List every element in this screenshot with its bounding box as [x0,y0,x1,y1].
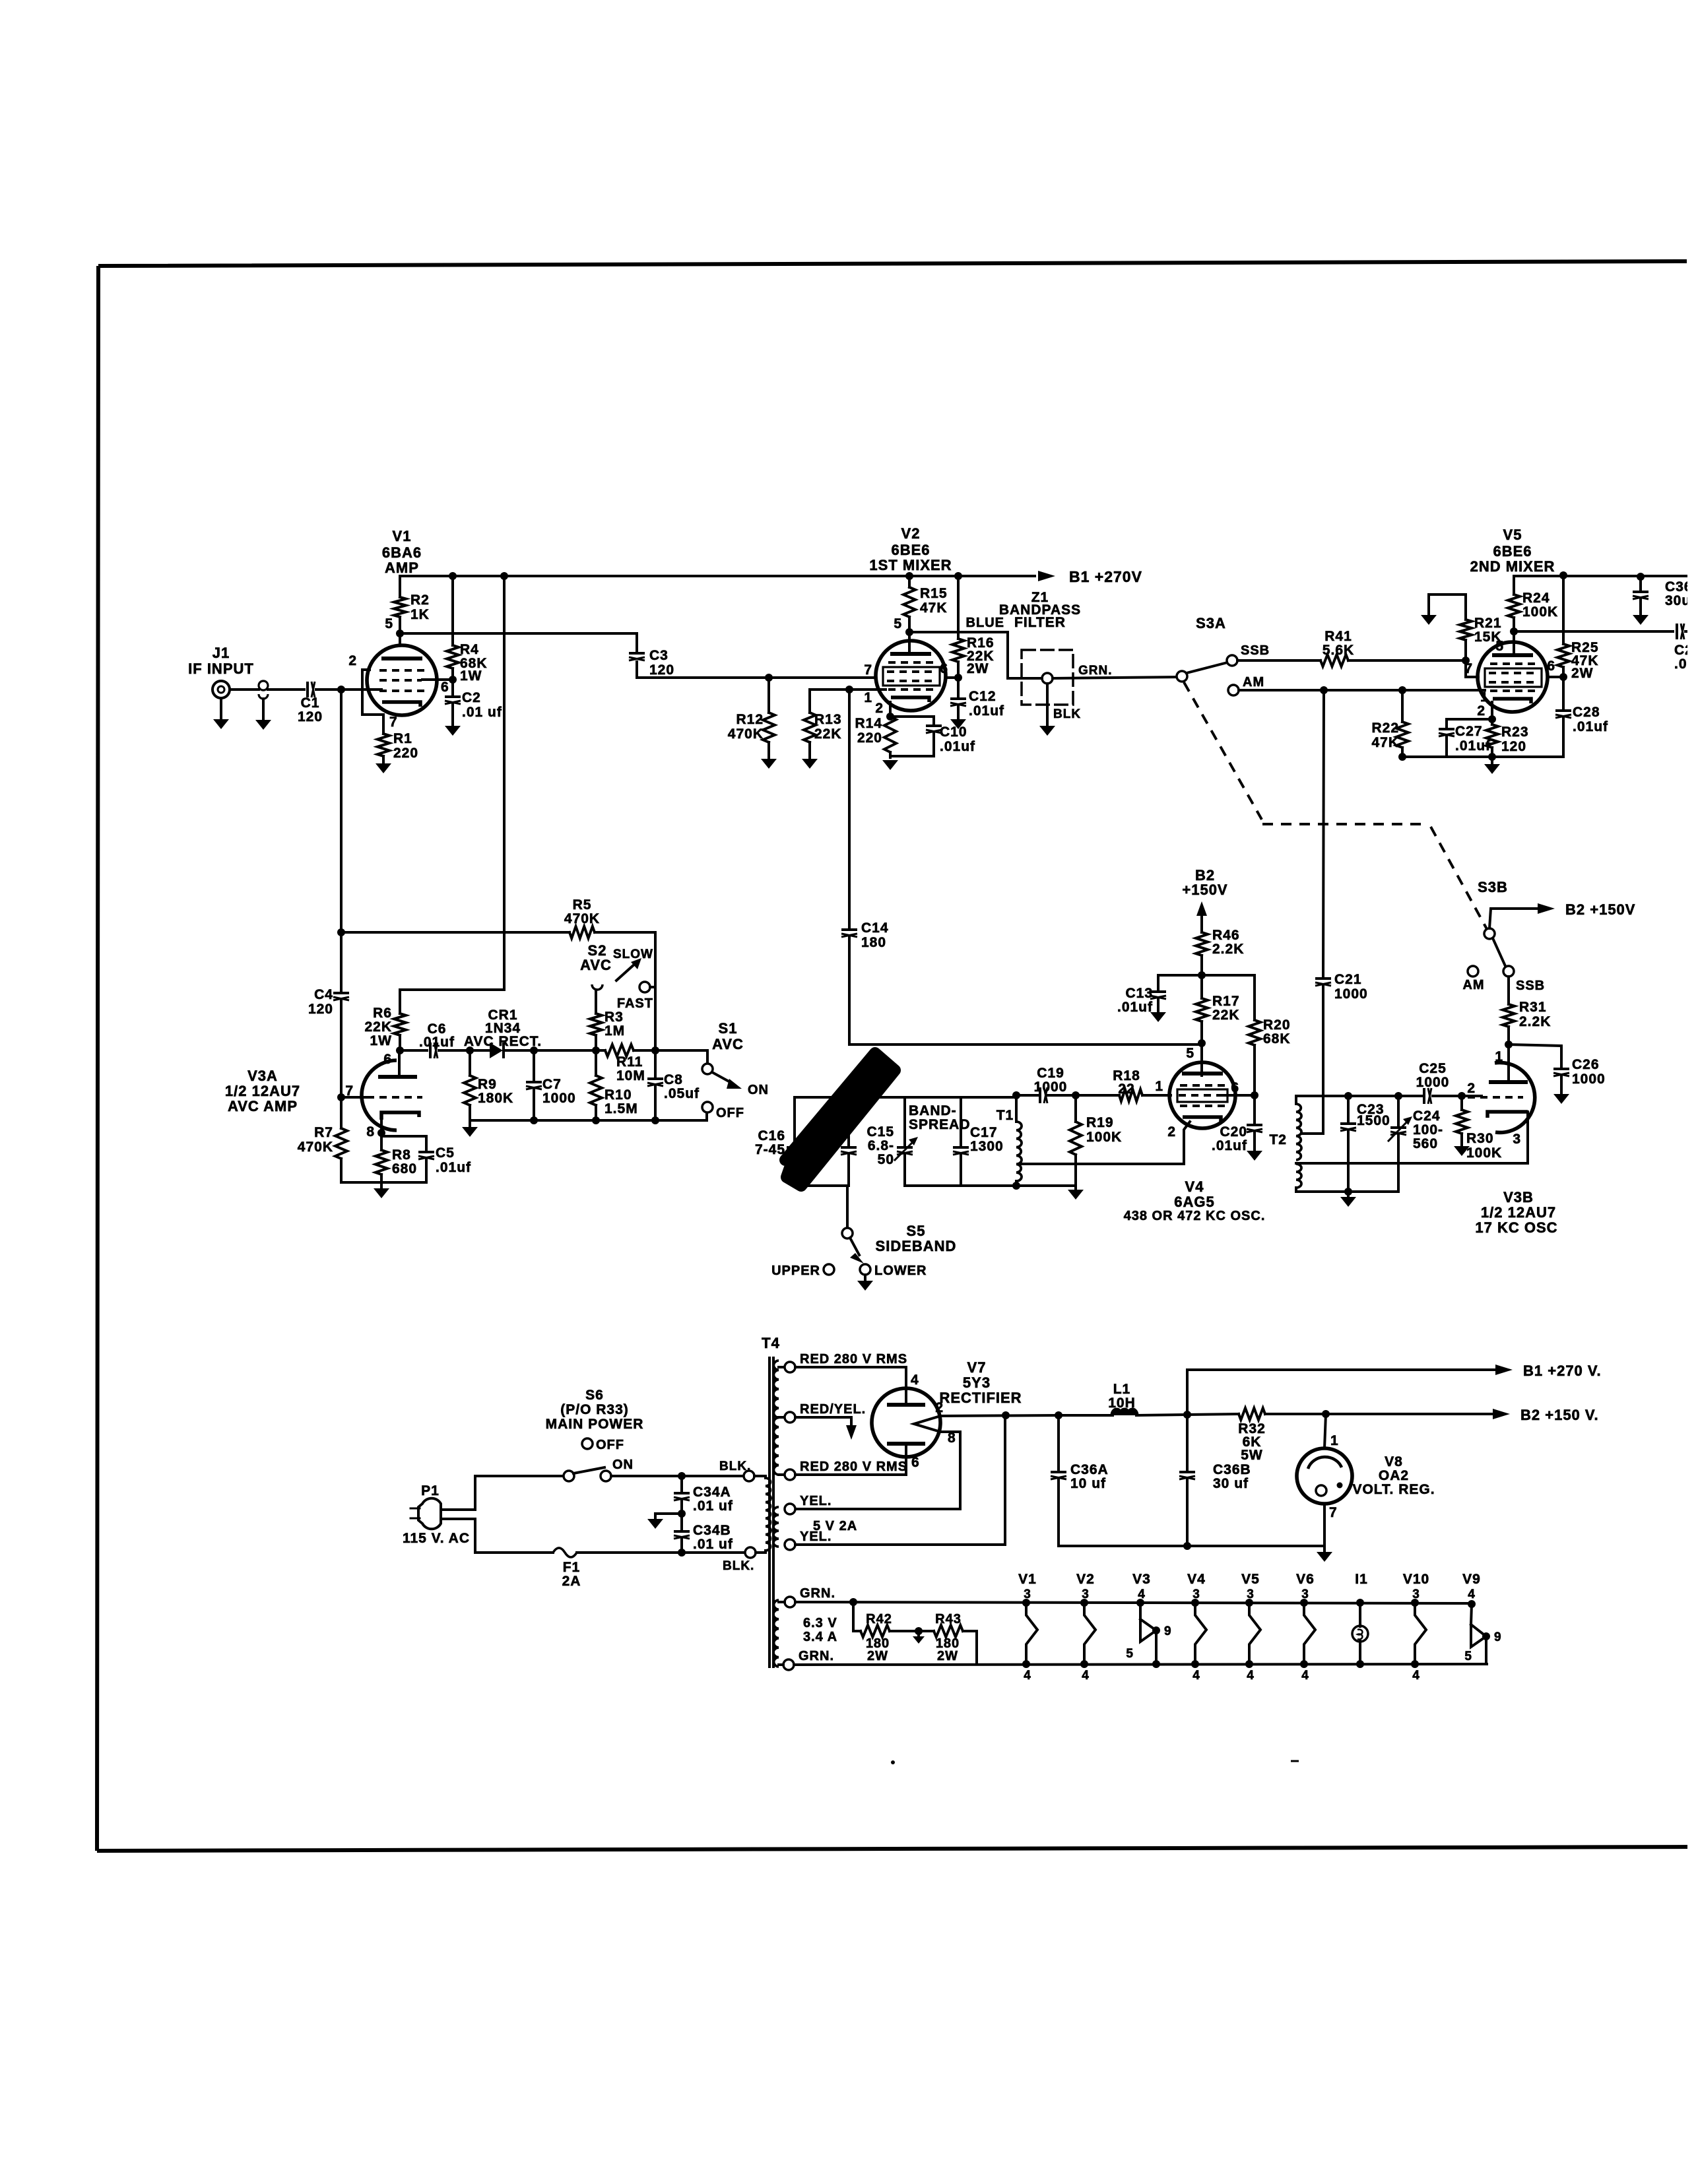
tube V5 6BE6 2ND MIXER [1478,642,1548,712]
svg-text:4: 4 [1247,1669,1255,1683]
wire to C26 [1509,1044,1561,1066]
wire R19 node to R18 [1076,1094,1119,1097]
svg-text:R2: R2 [410,593,430,608]
svg-text:V5: V5 [1503,527,1522,543]
svg-text:17 KC OSC: 17 KC OSC [1475,1219,1557,1236]
svg-text:AMP: AMP [385,560,419,576]
ground below R12 [761,759,777,769]
S2 FAST contact [639,982,650,992]
svg-text:3.4 A: 3.4 A [803,1630,837,1644]
pin 8 of V3A [380,1120,383,1133]
svg-text:4: 4 [1468,1588,1476,1601]
resistor R31 2.2K [1507,977,1510,1004]
svg-text:V1: V1 [1018,1572,1037,1587]
node AVC bus / C7 [530,1046,538,1054]
ground at connector [262,699,265,719]
ground below R23 [1491,757,1493,763]
capacitor C23 1500 [1347,1096,1350,1121]
capacitor C3 120 [629,652,645,655]
capacitor C14 180 [841,928,857,931]
svg-text:(P/O R33): (P/O R33) [560,1402,629,1417]
svg-text:R7: R7 [314,1125,333,1140]
node grid wire / R30 [1458,1092,1466,1100]
svg-text:R14: R14 [855,716,882,731]
capacitor C27 .01uf [1445,737,1448,757]
node pin6 V5 / R25 / C28 [1559,673,1567,681]
heater of V4 [1191,1599,1199,1607]
svg-text:115 V. AC: 115 V. AC [403,1531,470,1546]
svg-text:2W: 2W [1571,666,1594,681]
inductor T1 [1015,1095,1018,1122]
terminal GRN top [785,1597,795,1607]
wire connector to C1 [268,688,304,691]
node C23 top [1344,1092,1352,1100]
node choke out / B1 riser / C36B [1183,1411,1191,1419]
ground below C13 [1150,1012,1166,1022]
svg-text:6: 6 [1547,658,1555,674]
capacitor C15 6.8-50 (trimmer) [903,1097,906,1145]
terminal GRN bottom [783,1659,794,1670]
B2 +150V arrow (supply) [1493,1409,1510,1419]
wire C6 to CR1 [439,1049,489,1052]
svg-text:R42: R42 [866,1612,892,1626]
wire C19 to T1 top [1016,1094,1037,1097]
resistor R2 1K [399,576,401,597]
wire C3 to V2 pin7 [637,662,875,678]
pin 6 of V3A [398,1050,401,1077]
svg-text:C27: C27 [1455,724,1483,739]
svg-text:220: 220 [857,730,882,746]
wire to C13 [1158,975,1202,989]
svg-text:ON: ON [612,1458,634,1472]
node AVC bus / R3 / R10 [592,1046,600,1054]
wire T2 bottom bus [1298,1190,1398,1193]
node pin7 wire / R12 [765,674,773,682]
ganged tuning arrow (heavy ink mark) [785,1053,895,1186]
svg-text:R10: R10 [604,1087,632,1103]
svg-text:1W: 1W [370,1033,393,1048]
wire T2 top to C25 [1298,1095,1421,1097]
svg-text:RED/YEL.: RED/YEL. [800,1402,866,1417]
svg-text:R15: R15 [920,586,948,601]
svg-text:220: 220 [393,746,418,761]
svg-text:1ST MIXER: 1ST MIXER [869,557,952,573]
resistor R12 470K [767,678,770,713]
capacitor C36 30uf [1639,577,1642,589]
svg-text:UPPER: UPPER [771,1264,820,1278]
node C34B bottom [678,1549,686,1557]
svg-text:R23: R23 [1501,724,1529,740]
resistor R25 47K 2W [1562,575,1565,644]
capacitor C34A .01uf [680,1476,683,1491]
wire V2 pin1 grid [810,688,886,691]
svg-text:V2: V2 [1076,1572,1095,1587]
terminal in Z1 [1042,673,1053,684]
tube V7 5Y3 RECTIFIER [872,1388,940,1457]
pin 1 of V8 [1324,1414,1326,1448]
svg-text:1K: 1K [410,607,430,622]
wire V5 pin5 to C29 [1514,630,1673,633]
wire C1 to V1 grid [316,688,381,691]
terminal RED bottom [779,1473,785,1476]
svg-text:R20: R20 [1263,1017,1291,1033]
svg-text:C36B: C36B [1213,1462,1251,1477]
wire blue lead to Z1 [909,632,1023,678]
svg-text:C2: C2 [462,690,481,705]
node C4 line / pin7 / R7 [337,1093,345,1101]
svg-text:5: 5 [894,616,902,631]
wire YEL bottom to B+ node [795,1416,1005,1545]
pin 7 of V8 [1323,1504,1326,1551]
svg-text:MAIN POWER: MAIN POWER [546,1417,644,1432]
pin 6 of V5 [1548,676,1563,678]
svg-text:120: 120 [308,1002,333,1017]
pin 2 of V2 [889,702,892,717]
svg-text:C24: C24 [1413,1108,1441,1124]
svg-text:V2: V2 [901,525,921,542]
svg-text:4: 4 [1082,1669,1090,1683]
svg-text:1000: 1000 [1034,1079,1068,1095]
svg-text:10M: 10M [616,1068,645,1083]
svg-text:1000: 1000 [1416,1075,1450,1090]
svg-text:3: 3 [1513,1132,1521,1147]
resistor R9 180K [469,1050,471,1076]
transformer T2 [1295,1096,1297,1104]
S6 arm [573,1467,604,1473]
wire R32 to B2 arrow [1265,1413,1494,1415]
node R11 / C8 / S2 FAST [651,1046,659,1054]
node R21 / SSB wire [1462,657,1470,664]
svg-text:100K: 100K [1086,1130,1122,1145]
node bottom / C8 [651,1116,659,1124]
svg-text:S3A: S3A [1196,615,1226,631]
resistor R13 22K [808,690,811,713]
svg-text:R19: R19 [1086,1115,1114,1130]
page margin mask (scan edge) [1687,0,1698,2184]
wire B1 feed down to V3A plate supply [400,576,504,1013]
wire cathode return bottom V5 [1402,755,1563,758]
svg-text:C26: C26 [1572,1057,1600,1072]
terminal RED/YEL [779,1416,785,1419]
svg-text:1: 1 [864,690,872,705]
svg-text:.01uf: .01uf [419,1035,455,1050]
svg-text:50: 50 [878,1152,894,1167]
svg-text:R12: R12 [736,712,764,727]
svg-text:P1: P1 [421,1483,440,1498]
ground below C12 [950,719,966,729]
svg-text:4: 4 [1138,1588,1146,1601]
node C1 / AVC takeoff [337,686,345,693]
node top rail / AVC feed [500,572,508,580]
svg-text:GRN.: GRN. [799,1649,834,1663]
B1 +270V arrow (top) [1038,571,1055,581]
svg-text:R11: R11 [616,1054,643,1070]
svg-text:C7: C7 [542,1077,562,1092]
pin 1 of V4 grid wire [1142,1094,1171,1097]
svg-text:3: 3 [1247,1588,1255,1601]
svg-text:22K: 22K [364,1019,392,1035]
svg-text:2: 2 [1477,703,1486,719]
svg-text:.01uf: .01uf [436,1160,471,1175]
svg-text:+150V: +150V [1182,882,1227,898]
resistor R8 680 [380,1133,383,1150]
resistor R23 120 [1491,719,1493,724]
svg-text:4: 4 [1301,1669,1309,1683]
connector J1 [212,681,230,698]
capacitor C36A 10uf [1057,1415,1060,1469]
stray mark 1 [891,1760,895,1764]
resistor R4 68K 1W [451,576,454,645]
svg-text:BLUE: BLUE [966,616,1004,630]
svg-text:B2 +150V: B2 +150V [1565,901,1635,918]
svg-text:30 uf: 30 uf [1213,1476,1249,1491]
svg-text:AVC AMP: AVC AMP [228,1098,298,1114]
grid bracket pin 2 of V1 [362,670,383,715]
svg-text:C20: C20 [1220,1124,1247,1140]
wire AVC bus lower [400,1049,427,1052]
T4 primary winding [764,1476,767,1478]
capacitor C21 1000 [1315,977,1331,980]
capacitor C10 .01uf [890,717,934,723]
S5 arm [850,1238,859,1255]
wire GRN Z1 to S3A [1053,677,1178,678]
svg-text:SIDEBAND: SIDEBAND [876,1238,957,1254]
wire pin8 filament [795,1432,960,1509]
svg-text:9: 9 [1494,1630,1502,1644]
svg-text:470K: 470K [564,911,600,926]
svg-text:6BA6: 6BA6 [382,544,422,561]
ground below C2 [445,726,461,736]
svg-text:R4: R4 [460,642,479,657]
switch S3A pole [1177,671,1187,682]
node V5 pin5 / R24 / C29 wire [1510,627,1518,635]
svg-text:AVC RECT.: AVC RECT. [464,1034,542,1049]
svg-text:RED 280 V RMS: RED 280 V RMS [800,1460,907,1474]
wire R41 to R21 node [1348,659,1466,662]
node V5 rail / C36 [1637,573,1645,581]
resistor R6 22K 1W [394,1013,406,1035]
ground below V8 [1317,1552,1332,1562]
capacitor C29 .01uf [1676,624,1678,639]
svg-text:R9: R9 [478,1077,497,1092]
BLK terminal top [744,1471,754,1481]
S3B arm [1493,938,1505,966]
tube V4 6AG5 OSC [1169,1062,1235,1128]
wire R42 to R43 [890,1630,934,1632]
svg-text:6BE6: 6BE6 [1493,543,1532,560]
svg-text:OFF: OFF [596,1438,624,1452]
wire B+ to choke [1059,1414,1113,1417]
svg-text:3: 3 [1301,1588,1309,1601]
heater of V5 [1245,1599,1253,1607]
svg-text:2: 2 [935,1400,944,1415]
svg-text:C3: C3 [649,648,669,663]
svg-text:1: 1 [1495,1049,1503,1064]
terminal YEL bottom [785,1539,795,1550]
node pin6 V4 / R20 / C20 [1251,1091,1258,1099]
wire Z1 left lead [1023,677,1042,680]
svg-text:V9: V9 [1462,1572,1481,1587]
wire choke to R32 [1136,1414,1239,1415]
svg-text:LOWER: LOWER [874,1264,927,1278]
ground below R13 [802,759,818,769]
svg-text:V8: V8 [1385,1454,1403,1469]
S1 OFF contact [702,1102,713,1112]
node R22 bottom [1398,753,1406,761]
ground at J1 [220,698,222,718]
svg-text:R24: R24 [1522,591,1550,606]
svg-text:AM: AM [1462,978,1484,992]
svg-text:V6: V6 [1296,1572,1315,1587]
node pin2 / R14 / C10 [886,713,894,721]
resistor R30 100K [1460,1096,1463,1110]
svg-text:680: 680 [392,1161,417,1176]
svg-text:5: 5 [385,616,393,631]
S2 arm arrow [616,963,636,980]
S3A AM contact [1228,685,1239,695]
stray mark 2 [1291,1760,1299,1762]
svg-text:1W: 1W [460,668,482,684]
svg-text:R31: R31 [1519,1000,1547,1015]
S1 arm [712,1072,733,1083]
wire plug bottom lead [441,1519,553,1553]
svg-text:C28: C28 [1573,705,1600,720]
ground below V3A cathode [380,1182,383,1187]
svg-text:C34A: C34A [693,1485,731,1500]
resistor R32 6K 5W [1239,1408,1265,1420]
svg-text:OFF: OFF [716,1106,744,1120]
svg-text:T2: T2 [1269,1132,1287,1147]
svg-text:R8: R8 [392,1147,411,1163]
capacitor C24 100-560 (variable) [1397,1096,1400,1125]
wire F1 to primary bottom [577,1551,745,1554]
wire AVC takeoff down from C1 node [340,690,343,932]
pin 6 of V2 [946,676,958,679]
svg-text:C10: C10 [940,724,967,740]
svg-text:FAST: FAST [617,996,653,1011]
svg-text:9: 9 [1164,1624,1172,1638]
svg-text:8: 8 [366,1124,375,1140]
ground between R42 R43 [917,1631,920,1635]
svg-text:C1: C1 [301,695,320,711]
resistor R42 180 2W [861,1625,890,1637]
svg-text:120: 120 [1501,739,1526,754]
svg-text:1: 1 [1155,1079,1163,1094]
tube V1 6BA6 AMP [367,645,437,715]
svg-text:C17: C17 [970,1125,998,1140]
svg-text:BAND-: BAND- [909,1103,957,1118]
capacitor C17 1300 [960,1097,962,1145]
capacitor C20 .01uf [1253,1095,1256,1122]
wire RED bottom to V7 pin6 [795,1458,906,1475]
svg-text:B1 +270V: B1 +270V [1069,568,1142,585]
S6 contact right [601,1471,611,1481]
svg-text:YEL.: YEL. [800,1494,832,1508]
svg-text:22K: 22K [814,726,842,742]
node AVC bus / R9 [466,1046,474,1054]
svg-text:C19: C19 [1037,1066,1064,1081]
resistor R21 15K [1464,594,1467,620]
svg-text:1/2 12AU7: 1/2 12AU7 [1481,1204,1556,1221]
svg-text:2: 2 [348,653,357,668]
svg-text:V10: V10 [1403,1572,1429,1587]
svg-text:1: 1 [1330,1433,1339,1448]
svg-text:S6: S6 [585,1388,604,1403]
svg-text:C5: C5 [436,1145,455,1161]
svg-text:2W: 2W [967,661,989,676]
svg-text:R1: R1 [393,731,412,746]
node bottom / C7 [530,1116,538,1124]
resistor R43 180 2W [934,1625,963,1637]
pin 5 lead of V2 [908,632,911,654]
svg-text:7: 7 [864,662,872,678]
capacitor C4 120 [340,932,343,990]
pin 5 lead of V5 [1513,631,1515,655]
tube V8 OA2 VOLT REG [1297,1448,1352,1504]
svg-text:2: 2 [875,701,884,716]
node V2 pin5 / R15 / blue wire [905,628,913,636]
node R31 / C26 / V3B pin1 [1505,1041,1513,1048]
capacitor C6 .01uf [429,1043,432,1058]
heater of I1 [1356,1599,1364,1607]
svg-text:OA2: OA2 [1379,1468,1409,1483]
dashed linkage S3A to S3B [1184,682,1262,819]
svg-text:10 uf: 10 uf [1070,1476,1106,1491]
ground for R21 return [1429,594,1466,614]
svg-text:SSB: SSB [1516,979,1545,993]
heater of V9 (center-tapped) [1468,1600,1476,1608]
T4 HV secondary winding [773,1361,779,1475]
pin 6 of V1 [422,678,453,681]
resistor R11 10M [605,1044,634,1056]
svg-text:.01uf: .01uf [969,703,1004,719]
connector (phono) [259,681,268,690]
svg-text:C21: C21 [1334,972,1362,987]
node R32 out / V8 [1322,1410,1330,1418]
svg-text:4: 4 [1192,1669,1200,1683]
svg-text:180: 180 [861,935,886,950]
capacitor C7 1000 [533,1050,535,1079]
svg-text:6BE6: 6BE6 [891,542,930,558]
svg-text:R21: R21 [1474,616,1502,631]
capacitor C19 1000 [1048,1094,1076,1097]
wire S6 to T4 primary top [611,1475,744,1477]
S6 OFF contact [582,1438,593,1449]
wire AVC divider bottom [470,1113,707,1120]
wire B1 +270V top rail [400,575,1035,577]
ground below R14 [882,760,898,770]
capacitor C25 1000 [1423,1088,1425,1104]
svg-text:3: 3 [1082,1588,1090,1601]
svg-text:560: 560 [1413,1136,1438,1151]
svg-text:R17: R17 [1212,994,1240,1009]
svg-text:100K: 100K [1522,604,1558,620]
svg-text:R41: R41 [1324,629,1352,644]
pin 1 of V3B [1507,1044,1510,1082]
wire V5 plate rail [1514,575,1687,577]
node pin2 V5 / C27 / R23 [1488,715,1496,723]
node V1 pin5 / R2 / rail2 [396,629,404,637]
wire C25 to V3B grid [1433,1095,1482,1097]
ground below R19 [1074,1186,1077,1188]
resistor R7 470K [340,1097,343,1128]
heater of V10 [1411,1599,1419,1607]
node C36B bottom [1183,1542,1191,1550]
svg-text:1/2 12AU7: 1/2 12AU7 [225,1083,300,1099]
resistor R3 1M [595,990,597,1013]
heater of V6 [1300,1599,1308,1607]
wire RED/YEL center tap [795,1417,851,1425]
